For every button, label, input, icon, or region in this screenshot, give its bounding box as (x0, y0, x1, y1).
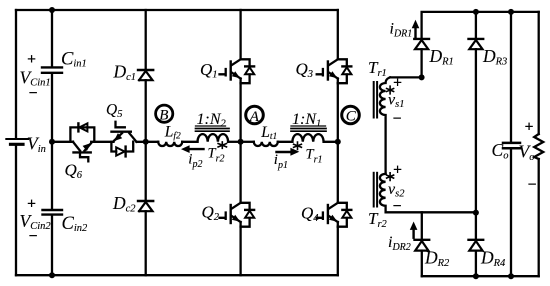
wire load rail (538, 12, 540, 276)
transistor Q4 (317, 203, 352, 227)
node dot B (143, 139, 149, 145)
transistor Q2 (220, 203, 255, 227)
polarity star vs2 (387, 173, 394, 181)
polarity star Tr2 (218, 142, 226, 148)
node dot bottom Co (508, 273, 514, 279)
transformer Tr1 secondary winding vs1 (380, 77, 390, 173)
wire secondary top bus (422, 12, 539, 38)
node dot bottom-left (49, 272, 55, 278)
wire clamp diode rail (145, 10, 147, 275)
wire DR3 DR4 rail (475, 12, 477, 276)
diode Dc1 (138, 70, 153, 80)
wire mid line between Q6 Q5 (91, 141, 113, 143)
svg-text:Tr1: Tr1 (368, 58, 387, 79)
svg-text:A: A (249, 109, 260, 125)
node dot top DR3 (473, 9, 479, 15)
wire left rail (15, 10, 17, 275)
current arrow ip1 (277, 148, 300, 156)
transformer Tr2 core (196, 129, 230, 132)
svg-text:Q5: Q5 (106, 102, 122, 121)
svg-text:+: + (27, 196, 36, 213)
diode DR4 (469, 240, 484, 251)
label 1:N1 with underline (291, 111, 326, 130)
wire input-capacitor rail (51, 10, 53, 275)
node dot top-left (49, 7, 55, 13)
polarity star Tr1 (294, 142, 302, 149)
svg-text:ip2: ip2 (188, 151, 202, 170)
wire mid line node A to Lt1 (241, 141, 254, 143)
capacitor Cin1 (42, 67, 62, 72)
node A circle (246, 106, 264, 125)
svg-text:DR3: DR3 (482, 46, 507, 68)
wire mid line Lf2 to Tr2 (182, 141, 197, 143)
battery Vin (6, 139, 28, 144)
svg-text:Q2: Q2 (202, 203, 220, 224)
node dot top Co (508, 9, 514, 15)
transistor Q5 (111, 122, 136, 157)
svg-text:+: + (393, 162, 402, 179)
diode DR2 (415, 240, 430, 276)
svg-text:+: + (27, 51, 36, 68)
svg-text:ip1: ip1 (274, 152, 288, 171)
svg-text:DR2: DR2 (424, 248, 450, 270)
transformer Tr1 secondary core (374, 82, 377, 118)
label VCin1 with plus minus (20, 51, 51, 102)
svg-text:Vo: Vo (519, 142, 535, 164)
wire vs1 top (390, 76, 422, 78)
transistor Q3 (317, 59, 352, 83)
svg-text:Vin: Vin (27, 134, 46, 156)
wire output capacitor rail (510, 12, 512, 276)
capacitor Cin2 (43, 210, 63, 215)
node dot bottom DR4 (473, 273, 479, 279)
node dot mid-left (49, 139, 55, 145)
svg-text:−: − (393, 198, 402, 215)
svg-text:Tr1: Tr1 (306, 146, 323, 165)
inductor Lt1 (254, 142, 278, 146)
current arrow ip2 (181, 145, 204, 153)
label VCin2 with plus minus (20, 196, 52, 246)
wire mid line Lt1 to Tr1 (278, 141, 293, 143)
svg-text:Lf2: Lf2 (164, 124, 181, 142)
diode DR1 (414, 39, 429, 78)
svg-text:C: C (346, 109, 357, 125)
wire leg A rail mid (239, 83, 241, 203)
node dot A (238, 139, 244, 145)
current arrow iDR2 (410, 222, 418, 238)
svg-text:−: − (393, 111, 402, 128)
label vs1 with plus minus (388, 75, 404, 128)
wire mid line left (52, 141, 73, 143)
svg-text:vs2: vs2 (388, 181, 405, 200)
label 1:N2 with underline (196, 111, 227, 130)
node dot vs1 top (419, 74, 425, 80)
wire mid line Tr1 to node C (324, 141, 338, 143)
svg-text:iDR2: iDR2 (388, 234, 411, 253)
svg-text:+: + (525, 119, 534, 136)
transformer Tr1 core (291, 129, 326, 132)
node C circle (342, 106, 360, 124)
capacitor Co (503, 143, 520, 148)
transformer Tr2 secondary core (374, 173, 377, 207)
resistor Vo load (534, 134, 543, 159)
svg-text:DR1: DR1 (429, 46, 454, 68)
svg-text:Cin2: Cin2 (62, 214, 89, 234)
wire leg C rail mid (337, 83, 339, 203)
svg-text:Q6: Q6 (65, 161, 83, 182)
svg-text:B: B (159, 107, 168, 123)
svg-text:iDR1: iDR1 (390, 21, 413, 40)
svg-text:Dc2: Dc2 (112, 193, 136, 215)
svg-text:−: − (29, 85, 38, 102)
svg-text:Q3: Q3 (296, 60, 314, 81)
polarity star vs1 (387, 86, 394, 94)
svg-text:Cin1: Cin1 (61, 50, 87, 70)
node dot C (335, 139, 341, 145)
wire leg A rail top (239, 10, 241, 59)
inductor Lf2 (158, 142, 182, 146)
wire top bus primary (16, 9, 338, 11)
transistor Q1 (220, 59, 255, 83)
wire mid line Tr2 to node A (228, 141, 241, 143)
wire leg A rail bottom (239, 227, 241, 276)
diode Dc2 (138, 201, 153, 211)
transistor Q6 (70, 123, 94, 161)
wire mid line to node B (137, 141, 159, 143)
wire secondary bottom bus (422, 275, 539, 277)
transformer Tr1 primary winding (292, 134, 323, 142)
svg-text:−: − (528, 177, 537, 194)
svg-text:Dc1: Dc1 (113, 62, 137, 84)
wire leg C rail bottom (337, 227, 339, 276)
svg-text:vs1: vs1 (388, 92, 404, 111)
label Vo with plus minus (519, 119, 537, 194)
wire leg C rail top (337, 10, 339, 59)
svg-text:+: + (393, 75, 402, 92)
transformer Tr2 secondary winding vs2 (380, 174, 476, 213)
node dot vs2 bottom (473, 210, 479, 216)
svg-text:Lt1: Lt1 (260, 124, 277, 142)
node B circle (156, 105, 173, 123)
label vs2 with plus minus (388, 162, 405, 216)
wire DR2 rail top (421, 212, 423, 239)
current arrow iDR1 (412, 20, 420, 38)
transformer Tr2 primary winding (198, 134, 229, 142)
svg-text:−: − (29, 228, 38, 245)
svg-text:Q1: Q1 (200, 60, 218, 81)
diode DR3 (469, 39, 484, 49)
svg-text:Q4: Q4 (301, 204, 319, 225)
svg-text:DR4: DR4 (480, 248, 506, 270)
wire bottom bus primary (16, 274, 338, 276)
